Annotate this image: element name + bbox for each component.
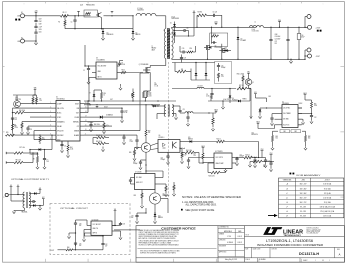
svg-text:Q1 TLW4N06FB: Q1 TLW4N06FB (139, 64, 149, 66)
size cage row dividers (252, 247, 335, 257)
transistor Q1A (84, 10, 102, 29)
svg-text:D1: D1 (170, 23, 172, 25)
optional T1 core (26, 192, 27, 208)
svg-text:VFLG/OV: VFLG/OV (57, 130, 64, 132)
svg-text:E21: E21 (254, 92, 257, 94)
svg-text:Fax: (408) 434-0507: Fax: (408) 434-0507 (307, 233, 319, 235)
net flag E11 (39, 188, 42, 191)
wire C31 bottom (75, 244, 77, 250)
wire VAUX to U5 (203, 150, 214, 163)
wire VAUX3 to U2 (298, 103, 302, 108)
mosfet Q4 (204, 45, 211, 50)
U1 left pin stubs (52, 104, 56, 140)
svg-text:R62: R62 (294, 131, 297, 133)
capacitor C28 (270, 118, 273, 126)
capacitor C3 (34, 32, 37, 33)
ground D3 (101, 37, 134, 40)
svg-text:LTC4440BES6: LTC4440BES6 (96, 59, 105, 61)
capacitor C19 (129, 178, 147, 224)
svg-text:E12: E12 (42, 197, 45, 199)
svg-text:R53 46.4k: R53 46.4k (251, 157, 257, 159)
border zone numbers (24, 3, 324, 5)
optional T1 windings (23, 192, 31, 208)
for assembly label (290, 173, 322, 177)
wire SOUT rail (84, 104, 160, 108)
label FA2901A (22, 211, 28, 214)
resistor R15 (102, 122, 108, 134)
mosfet Q5 (219, 44, 226, 53)
svg-text:LT1952EGN-1: LT1952EGN-1 (56, 98, 65, 100)
svg-text:SEE QUICK START GUIDE.: SEE QUICK START GUIDE. (185, 209, 215, 212)
label output caps (275, 34, 281, 45)
ground R38 (172, 193, 175, 196)
svg-text:VFB: VFB (34, 88, 37, 90)
bias rail2 (172, 88, 244, 89)
svg-text:C18: C18 (30, 129, 33, 131)
svg-text:FOR ASSEMBLY: FOR ASSEMBLY (297, 174, 322, 177)
resistor R51b (218, 73, 224, 82)
label +VOUT (316, 27, 321, 29)
ground output (289, 59, 292, 63)
wire to C24 (216, 138, 259, 158)
ground R33 (304, 147, 307, 150)
wire T1 secondary top (172, 27, 197, 28)
resistor R40 (58, 247, 104, 251)
resistor R17 (12, 124, 19, 133)
ground C13b (186, 123, 189, 126)
svg-text:OPTIONAL CIRCUIT: OPTIONAL CIRCUIT (60, 207, 89, 210)
svg-text:R1 2.2: R1 2.2 (63, 12, 67, 14)
svg-text:820uF: 820uF (301, 36, 305, 38)
capacitor C5 (83, 66, 90, 84)
capacitor C16 (263, 161, 273, 168)
svg-text:U1: U1 (56, 97, 58, 99)
capacitor C18 (26, 126, 32, 134)
wire subbox (211, 27, 213, 43)
svg-text:SOUT: SOUT (51, 250, 55, 252)
U5 pins (232, 158, 237, 164)
wire VIN pin (84, 105, 123, 109)
notes text (181, 195, 241, 212)
svg-text:CUSTOMER NOTICE: CUSTOMER NOTICE (161, 226, 196, 230)
U2 lower label boxes (280, 130, 301, 134)
capacitor C31 (74, 243, 82, 247)
ground R9 (36, 166, 39, 169)
ground C24 (264, 164, 267, 167)
wire L2 to T1 (156, 16, 166, 29)
wire Q2 collector (13, 94, 36, 100)
svg-text:SD/VSEC: SD/VSEC (57, 135, 65, 137)
svg-text:-B: -B (286, 188, 288, 190)
resistor R10 (94, 90, 106, 101)
wire U2 csl (272, 114, 278, 118)
title text line1 (266, 239, 313, 243)
diode D5r (84, 114, 124, 123)
capacitor C30 (74, 220, 87, 228)
diode D9 PCLAMP (237, 27, 246, 59)
resistor R21 (39, 134, 45, 144)
transistor Q2A (14, 96, 22, 107)
wire Q1A collector rail (104, 11, 134, 16)
diode D11 (188, 137, 216, 143)
capacitor column C23 (286, 27, 289, 59)
capacitor C12b (122, 134, 125, 144)
op-amp U8 box (91, 221, 112, 235)
capacitor C6a (180, 55, 186, 63)
svg-text:1uF: 1uF (131, 217, 133, 219)
wire OUT rail (84, 99, 176, 102)
capacitor C11 (178, 109, 185, 113)
svg-text:C1M: C1M (39, 19, 42, 21)
terminal E10 (5, 193, 24, 196)
svg-text:1.5k: 1.5k (221, 76, 224, 78)
resistor R22 (212, 113, 214, 127)
svg-text:ISOLATED FORWARD DC/DC CONVERT: ISOLATED FORWARD DC/DC CONVERTER (257, 243, 324, 247)
diode D4 (132, 29, 135, 37)
diode D18 (29, 192, 40, 195)
svg-text:0.47uF: 0.47uF (121, 64, 125, 66)
net flag E12 (42, 197, 45, 205)
optocoupler U6 internals (163, 142, 177, 149)
transistor Q3 (149, 193, 169, 204)
secondary snubber (180, 46, 196, 54)
svg-text:PMEG: PMEG (243, 99, 247, 101)
net flag VIN2 (35, 11, 38, 16)
resistor R35 cluster (250, 157, 267, 163)
transformer T1 core (167, 29, 170, 59)
svg-text:1210: 1210 (39, 32, 42, 34)
terminal E3 +VOUT upper (305, 15, 311, 28)
capacitor C17 (11, 118, 17, 125)
resistor R6 gate (121, 70, 126, 74)
svg-text:R16 4.7k: R16 4.7k (237, 74, 243, 76)
label L2 (137, 8, 144, 12)
svg-text:Q2: Q2 (252, 82, 254, 84)
svg-text:R2: R2 (58, 22, 60, 24)
wire SENSE pin (84, 73, 149, 131)
svg-text:R4 R50: R4 R50 (198, 11, 203, 13)
svg-text:E11: E11 (39, 188, 42, 190)
svg-text:C2M: C2M (39, 21, 42, 23)
label D4 (136, 32, 141, 35)
U3 left pins (92, 66, 96, 78)
svg-text:35V: 35V (275, 43, 277, 45)
svg-text:R42 49.9k: R42 49.9k (96, 141, 102, 143)
diode D2 (170, 33, 176, 41)
wire T2 left bottom (157, 114, 166, 120)
label SOUT opt (51, 250, 55, 252)
transformer T1 label (152, 46, 157, 51)
svg-text:GND OUT: GND OUT (136, 182, 143, 184)
svg-text:C6: C6 (64, 146, 66, 148)
snubber box 2 (215, 62, 232, 84)
net flag VAUX3 (303, 92, 311, 102)
svg-text:ALL CAPACITORS ARE 0603.: ALL CAPACITORS ARE 0603. (186, 203, 217, 206)
svg-text:10k: 10k (194, 155, 196, 157)
net flag 75V2 (267, 153, 274, 161)
wire SOUT pin (84, 104, 91, 106)
diode D1 (170, 22, 176, 33)
U2 pin text (283, 108, 291, 127)
snubber capacitor C26 (210, 14, 218, 17)
U5 pin text (216, 157, 224, 165)
svg-text:U7 LT1389: U7 LT1389 (135, 171, 142, 173)
wire U1 gnd down (61, 141, 63, 146)
svg-text:-VIN: -VIN (17, 41, 20, 43)
wire DELAY (28, 125, 52, 127)
label R5 (40, 99, 42, 102)
svg-text:18V - 36V: 18V - 36V (300, 188, 307, 190)
wire R7 right (30, 152, 38, 153)
U3 pin text (98, 66, 107, 79)
transformer T2 core (168, 105, 169, 117)
wire U2 right2 (298, 113, 312, 114)
wire U8 gnd pin (82, 230, 87, 242)
diode D12 (195, 73, 198, 80)
ground C16 (248, 162, 272, 172)
resistor R16 (12, 110, 52, 114)
svg-text:C14 1uF: C14 1uF (182, 155, 187, 157)
U3 right pins (117, 66, 121, 73)
net flag E9 (17, 185, 20, 195)
U1 right pin labels (73, 103, 80, 136)
svg-text:1uF: 1uF (263, 166, 265, 168)
label R7 (20, 147, 26, 149)
rev box (337, 249, 341, 257)
svg-text:OF: OF (322, 260, 324, 262)
svg-text:CSL SYNC: CSL SYNC (283, 108, 290, 110)
wire U2 gnd pin (298, 119, 305, 124)
customer notice divider (136, 248, 244, 257)
svg-text:L3 10uH: L3 10uH (198, 85, 203, 87)
resistor R34 (266, 101, 268, 103)
capacitor C14 (182, 155, 215, 166)
logo address (307, 227, 322, 235)
node squares at input (15, 19, 20, 21)
wire L1 to +VOUT (264, 27, 308, 28)
label L1 (255, 22, 257, 24)
net flag 75V (260, 149, 264, 157)
svg-text:.033: .033 (149, 95, 152, 97)
svg-text:OUT: OUT (110, 99, 113, 101)
terminal E2 -VIN (17, 37, 28, 43)
bias top rail (172, 62, 215, 63)
svg-text:(75V): (75V) (260, 149, 264, 151)
wire BLANK pin (84, 134, 137, 136)
dwg no text (299, 252, 320, 256)
title block outline (136, 226, 344, 263)
svg-text:ENGINEER: ENGINEER (219, 246, 226, 248)
op-amp U1 LT1952 box (56, 101, 80, 142)
wire U2 os (275, 118, 279, 120)
label R4 R50 (198, 11, 203, 13)
logo underline (244, 236, 344, 238)
U2 left pins (278, 108, 282, 125)
svg-text:DWG NO: DWG NO (272, 249, 278, 251)
wire U8 TS (116, 231, 122, 240)
gate network R2 (58, 16, 66, 29)
wire to Q1A (64, 15, 90, 16)
svg-text:4.7uF: 4.7uF (124, 112, 128, 114)
svg-text:R24 2.49k: R24 2.49k (186, 150, 192, 152)
wire U7 to opto (145, 170, 163, 177)
svg-text:R9: R9 (33, 159, 35, 161)
svg-text:C21 68uF: C21 68uF (275, 39, 281, 41)
ground U8 area (67, 235, 70, 238)
svg-text:CMPD3003S: CMPD3003S (171, 18, 179, 20)
bottom row labels (245, 258, 330, 262)
capacitor C11M (120, 108, 127, 117)
wire -VIN stub (28, 40, 37, 41)
resistor R38 (173, 182, 175, 193)
ground input (34, 42, 37, 45)
label -VOUT (316, 56, 321, 58)
svg-text:22.6k: 22.6k (15, 127, 19, 129)
svg-text:C1 C26: C1 C26 (213, 11, 218, 13)
ground Q10 (153, 220, 156, 223)
svg-text:1uF: 1uF (15, 119, 17, 121)
svg-text:1:1.74: 1:1.74 (155, 85, 159, 87)
resistor R5 pair (32, 95, 38, 104)
transistor Q8 (141, 143, 151, 153)
wire T2 right bottom (172, 114, 177, 120)
svg-text:GND TG: GND TG (93, 228, 98, 230)
wire zener gnd (258, 115, 261, 118)
sync FET sub-box (210, 33, 228, 47)
capacitor C25 (253, 160, 256, 168)
wire VFLG (34, 130, 52, 132)
capacitor C12 (130, 135, 139, 149)
net flag VOUT24 (278, 20, 282, 28)
assembly table rows (286, 183, 335, 218)
ground C13 (166, 161, 169, 164)
svg-text:1500pF: 1500pF (133, 163, 138, 165)
inductor L2 (136, 13, 156, 16)
wire D4 up (132, 15, 133, 29)
U1 right pin stubs (80, 104, 84, 136)
capacitor C27 (310, 116, 317, 124)
svg-text:VCC BOOST: VCC BOOST (98, 66, 107, 68)
capacitor C31b2 (217, 63, 226, 71)
svg-text:CSL TIMER: CSL TIMER (283, 113, 291, 115)
svg-text:VR: VR (210, 95, 212, 97)
net flag U8 vcc (112, 209, 116, 226)
resistor R7 (6, 149, 30, 154)
U8 pin text (93, 224, 101, 235)
svg-text:E2: E2 (21, 37, 23, 39)
label U5 (179, 147, 223, 153)
net flag VAUX4 (256, 121, 274, 129)
svg-text:VCC BOOST: VCC BOOST (93, 224, 101, 226)
resistor RT1 (93, 135, 109, 139)
ground R30 (164, 193, 167, 196)
label Q5 (227, 51, 229, 53)
svg-text:CHECKED: CHECKED (219, 240, 225, 242)
node squares at output (317, 30, 322, 32)
svg-text:OS GND: OS GND (283, 119, 289, 121)
assembly table header (283, 180, 330, 182)
customer notice title (161, 226, 196, 230)
svg-text:C3M: C3M (39, 24, 42, 26)
wire T1 primary bottom (150, 59, 166, 66)
svg-text:C8 100pF: C8 100pF (88, 122, 94, 124)
U7 pins (131, 178, 160, 185)
ground left bus (11, 133, 14, 136)
svg-text:ISENSE-: ISENSE- (73, 121, 80, 123)
diode D8 (152, 105, 158, 107)
svg-text:-E: -E (286, 202, 288, 204)
wire opto right bottom (180, 149, 184, 164)
snubber2 capacitor C31 (212, 41, 217, 44)
svg-text:+VIN: +VIN (17, 16, 20, 18)
svg-text:PS2801-1: PS2801-1 (159, 137, 165, 139)
svg-text:0.1uF: 0.1uF (206, 96, 210, 98)
svg-text:10k: 10k (40, 100, 42, 102)
resistor R9 (33, 153, 39, 166)
op-amp U3 LTC4440B box (96, 62, 117, 79)
wire clamp rail (65, 28, 133, 29)
wire Q1 drain (149, 66, 151, 68)
net flag E21 (254, 92, 271, 102)
svg-text:9V - 18V: 9V - 18V (300, 211, 306, 213)
diode D20 (238, 88, 251, 102)
resistor R25 (255, 157, 262, 159)
diode D3 (102, 29, 105, 37)
wire Q8 emitter down (145, 152, 146, 173)
resistor R29 (134, 190, 143, 205)
svg-text:C5: C5 (83, 70, 85, 72)
diode D6 PDS5100 (229, 89, 238, 104)
svg-text:SHEET: SHEET (303, 260, 308, 262)
capacitor C6 (60, 141, 66, 153)
op-amp U7 box (135, 174, 156, 190)
label optional footprint (11, 178, 49, 181)
label D3 (107, 32, 114, 35)
capacitor C24 (262, 158, 270, 165)
svg-text:REV: REV (337, 249, 340, 251)
label U3 (96, 58, 105, 62)
svg-text:R29: R29 (134, 195, 137, 197)
wire SYNC (30, 116, 52, 118)
label U1 (56, 97, 65, 101)
net flag E8 (10, 185, 25, 201)
resistor R14 rosc (66, 141, 73, 158)
svg-text:VR1: VR1 (247, 72, 250, 74)
svg-text:41.2k: 41.2k (70, 148, 74, 150)
wire SDVSEC (6, 132, 53, 136)
clamp bottom wire (174, 31, 194, 44)
svg-text:1uF: 1uF (79, 245, 81, 247)
svg-text:L2 1.5uH: L2 1.5uH (137, 8, 142, 10)
svg-text:1uF: 1uF (105, 245, 107, 247)
snubber resistor R4 (198, 14, 207, 17)
svg-text:VIN: VIN (96, 105, 98, 107)
svg-text:GND/COMP: GND/COMP (216, 163, 224, 165)
wire T2 right top (172, 106, 180, 110)
label U7 (135, 171, 142, 173)
transformer T2 left winding (164, 105, 166, 117)
net flag F2 (77, 11, 80, 15)
svg-text:36V - 72V: 36V - 72V (300, 197, 307, 199)
resistor R8 (6, 153, 33, 164)
wire U3 TG to gate (121, 72, 144, 74)
op-amp U5 box (214, 153, 232, 169)
wire U2 flg (298, 124, 301, 126)
ground opt T1 (12, 210, 15, 213)
inductor L1 (250, 26, 264, 33)
svg-text:18V - 36V: 18V - 36V (300, 193, 307, 195)
wire bias bottom (191, 69, 210, 81)
